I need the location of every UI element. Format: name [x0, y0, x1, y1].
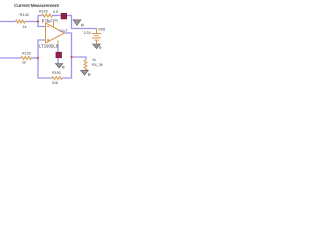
svg-text:1k: 1k	[22, 61, 26, 65]
svg-text:1k: 1k	[92, 58, 96, 62]
svg-text:R125: R125	[22, 52, 31, 56]
svg-text:0.5: 0.5	[53, 10, 58, 14]
svg-text:516.29m: 516.29m	[42, 19, 58, 23]
svg-text:Current Measurement: Current Measurement	[14, 3, 59, 9]
svg-text:V65: V65	[98, 26, 106, 31]
svg-text:R143: R143	[39, 9, 48, 13]
svg-text:R4_36: R4_36	[92, 63, 103, 67]
svg-text:516: 516	[52, 81, 58, 85]
svg-text:1k: 1k	[23, 25, 27, 29]
svg-text:3.3V: 3.3V	[84, 31, 92, 35]
svg-text:R150: R150	[52, 71, 61, 75]
svg-text:LT1995L8: LT1995L8	[39, 44, 59, 49]
svg-text:R142: R142	[20, 12, 30, 17]
svg-text:OUT: OUT	[60, 28, 69, 33]
